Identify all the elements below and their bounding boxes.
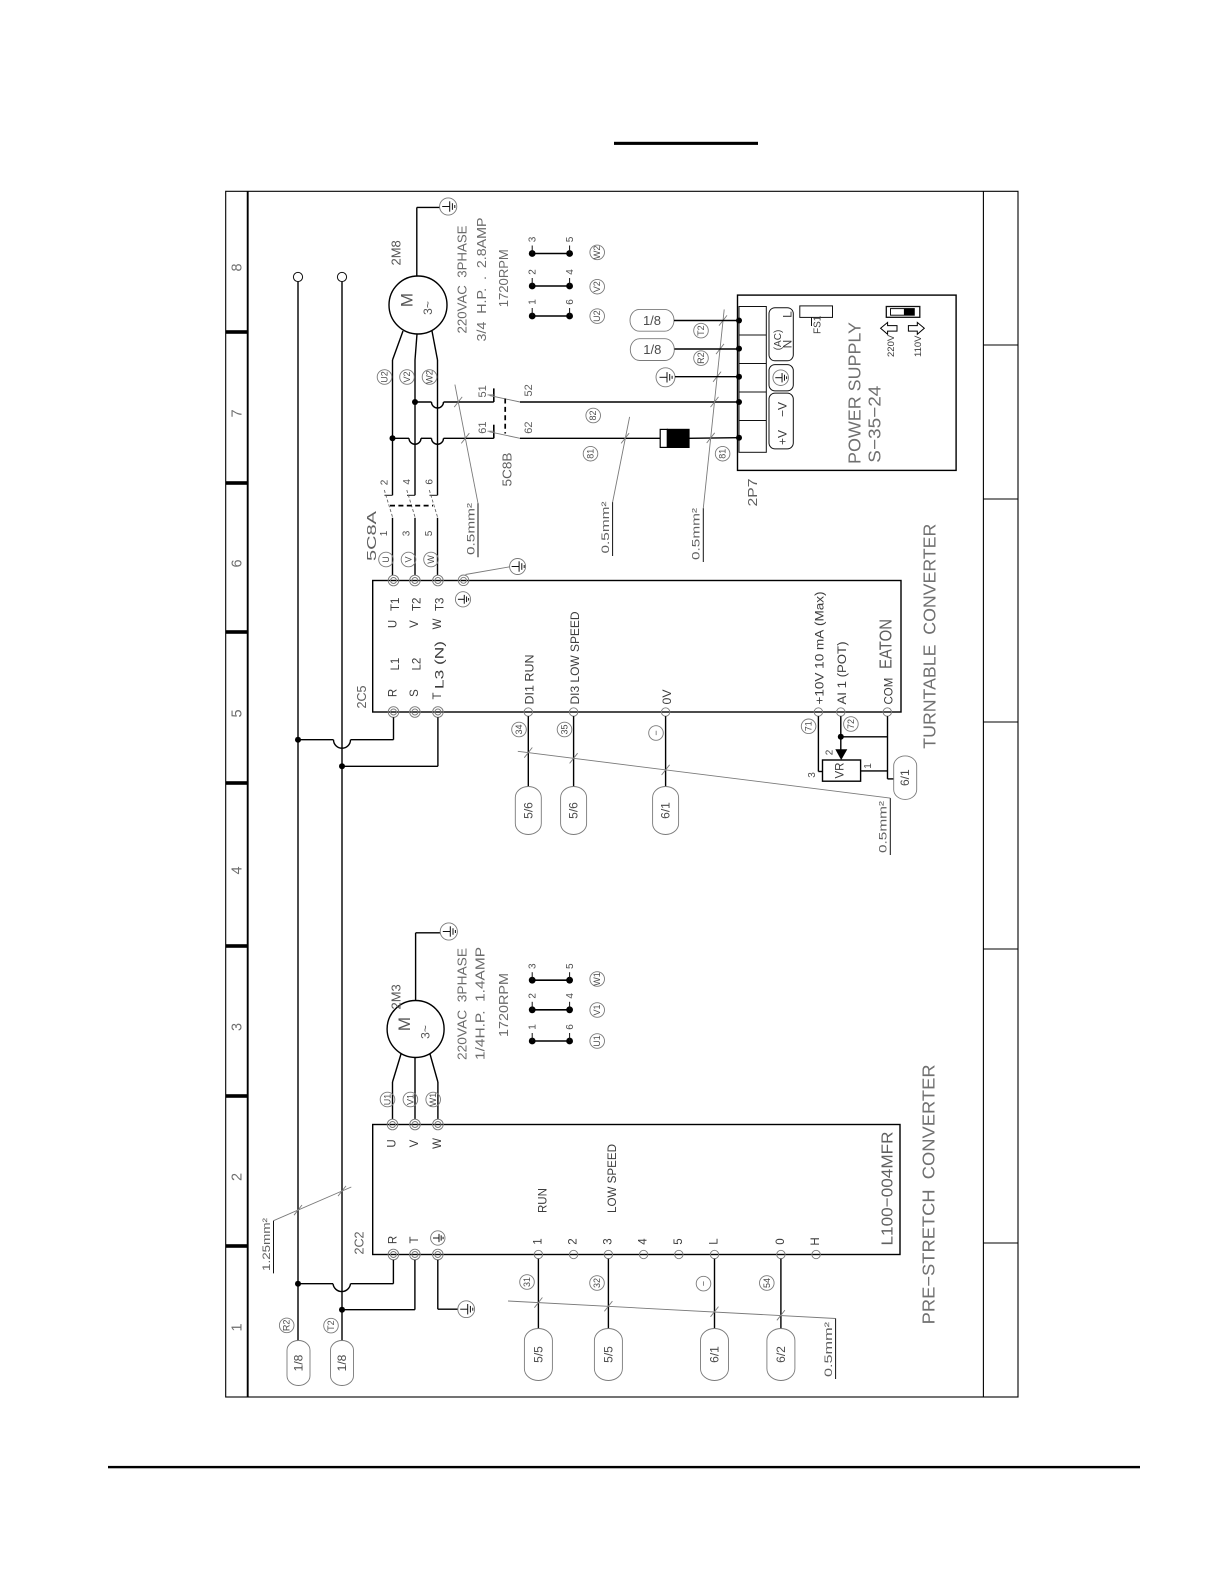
- svg-text:0V: 0V: [662, 689, 674, 704]
- svg-text:−: −: [651, 730, 661, 735]
- node U2 label: [377, 370, 392, 385]
- svg-text:W1: W1: [428, 1093, 438, 1107]
- node V1 label: [403, 1092, 418, 1107]
- wire V2 (motor 2M8 to 5C8A): [415, 334, 417, 495]
- svg-text:AI 1 (POT): AI 1 (POT): [837, 641, 849, 704]
- wiper arrow: [835, 749, 847, 760]
- terminal +V: [736, 435, 742, 441]
- svg-text:U: U: [387, 1139, 399, 1147]
- wire 52 (contact to power supply): [520, 401, 738, 403]
- svg-text:35: 35: [560, 724, 570, 734]
- svg-text:52: 52: [523, 384, 535, 396]
- label +V -V: [769, 393, 793, 449]
- svg-text:T: T: [432, 692, 444, 699]
- node U1 label (link): [590, 1034, 605, 1049]
- svg-text:1/8: 1/8: [643, 342, 661, 357]
- svg-text:T3: T3: [435, 598, 447, 611]
- wire size leader 0.5mm2 (2C2 control wires): [508, 1301, 836, 1379]
- svg-text:PRE−STRETCH CONVERTER: PRE−STRETCH CONVERTER: [919, 1064, 939, 1324]
- svg-text:TURNTABLE CONVERTER: TURNTABLE CONVERTER: [920, 524, 940, 749]
- destination 1/8 (R): [287, 1341, 310, 1386]
- svg-text:7: 7: [229, 409, 245, 417]
- node 31 label: [520, 1275, 535, 1290]
- svg-text:V1: V1: [592, 1004, 602, 1015]
- svg-text:5/6: 5/6: [521, 802, 535, 819]
- svg-text:V1: V1: [405, 1094, 415, 1105]
- svg-text:RUN: RUN: [538, 1188, 550, 1213]
- destination 5/6: [515, 787, 541, 835]
- node 81 label (right): [715, 446, 730, 461]
- node R2 label: [694, 351, 709, 366]
- node W2 label (link): [590, 245, 605, 260]
- junction on wire V2: [412, 399, 418, 405]
- node - label: [649, 726, 664, 741]
- wire DI1 to 5/6: [524, 716, 532, 786]
- node T2 label: [694, 323, 709, 338]
- svg-text:3: 3: [528, 963, 539, 969]
- converter 2C5 (EATON): [373, 581, 901, 713]
- svg-text:R2: R2: [282, 1320, 292, 1332]
- svg-text:62: 62: [523, 422, 535, 434]
- svg-text:0.5mm²: 0.5mm²: [878, 801, 890, 853]
- node V2 label (link): [590, 279, 605, 294]
- terminal -V: [736, 399, 742, 405]
- node W label: [424, 552, 439, 567]
- svg-text:1: 1: [528, 1024, 539, 1030]
- svg-text:51: 51: [477, 385, 489, 397]
- switch 5C8B contact 51-52 blade: [490, 396, 521, 403]
- node 72 label: [844, 717, 859, 732]
- ground (2C2): [438, 1260, 475, 1318]
- node W1 label (link): [590, 972, 605, 987]
- svg-text:L1: L1: [390, 658, 402, 671]
- terminal PE: [736, 374, 742, 380]
- svg-text:R: R: [388, 689, 400, 697]
- svg-text:POWER SUPPLY: POWER SUPPLY: [845, 322, 865, 464]
- wire 1 (RUN) to 5/5: [534, 1259, 542, 1329]
- svg-text:DI3 LOW SPEED: DI3 LOW SPEED: [570, 612, 582, 705]
- svg-text:2: 2: [568, 1238, 580, 1244]
- node 54 label: [760, 1276, 775, 1291]
- svg-text:2C5: 2C5: [354, 686, 369, 709]
- wire R (bus R2 to 2C2): [295, 1260, 393, 1292]
- terminal 0: [777, 1250, 785, 1258]
- terminal S: [410, 707, 421, 718]
- wire 3 (LOW SPEED) to 5/5: [604, 1259, 612, 1329]
- destination 5/5 (2): [594, 1329, 622, 1381]
- svg-text:W2: W2: [425, 370, 435, 384]
- svg-text:54: 54: [762, 1278, 772, 1288]
- svg-text:5: 5: [424, 530, 435, 536]
- wire 0 to 6/2: [777, 1259, 785, 1329]
- node V2 label: [400, 370, 415, 385]
- svg-text:U: U: [388, 620, 400, 628]
- svg-text:(AC): (AC): [773, 330, 784, 351]
- source 1/8 (T2 wire): [630, 309, 674, 331]
- svg-text:32: 32: [592, 1278, 602, 1288]
- svg-text:1: 1: [229, 1323, 245, 1331]
- terminal L: [736, 318, 742, 324]
- svg-text:3~: 3~: [419, 1025, 433, 1039]
- svg-text:5C8B: 5C8B: [501, 453, 515, 487]
- terminal PE: [433, 1249, 444, 1260]
- svg-text:5C8A: 5C8A: [364, 511, 379, 561]
- svg-text:W: W: [432, 618, 444, 629]
- wire 0V to 6/1: [662, 716, 670, 786]
- svg-text:1/8: 1/8: [292, 1354, 306, 1371]
- title underline: [614, 142, 758, 145]
- terminal COM: [883, 708, 891, 716]
- terminal T: [410, 1249, 421, 1260]
- svg-text:2: 2: [528, 993, 539, 999]
- svg-text:2: 2: [229, 1173, 245, 1181]
- motor 2M8: [389, 276, 447, 334]
- svg-text:3: 3: [602, 1238, 614, 1244]
- svg-text:V: V: [404, 556, 414, 562]
- wire AI1 to VR wiper: [838, 716, 844, 750]
- converter 2C2 (L100-004MFR): [373, 1125, 900, 1255]
- bus R2 (phase R vertical bus): [293, 272, 302, 1340]
- svg-text:8: 8: [229, 263, 245, 271]
- svg-text:6/1: 6/1: [659, 802, 673, 819]
- wire T (bus T2 to 2C2): [339, 1260, 415, 1313]
- ground (motor 2M8): [417, 198, 457, 276]
- wire COM to 6/1: [888, 716, 894, 779]
- svg-text:3: 3: [402, 530, 413, 536]
- wire AI1 junction to COM branch: [841, 736, 888, 738]
- terminal AI1: [837, 708, 845, 716]
- svg-text:W: W: [426, 555, 436, 564]
- svg-text:2M8: 2M8: [389, 240, 404, 265]
- svg-text:M: M: [395, 1017, 414, 1031]
- terminal N: [736, 346, 742, 352]
- svg-text:1: 1: [528, 299, 539, 305]
- wire 1/8 (bus R2 tail): [0, 0, 1, 1]
- terminal 2: [569, 1250, 577, 1258]
- svg-text:1/8: 1/8: [643, 313, 661, 328]
- terminal U: [387, 1119, 398, 1130]
- svg-text:W1: W1: [592, 972, 602, 986]
- terminal link diagram motor 2M8: [528, 236, 576, 319]
- svg-text:72: 72: [846, 719, 856, 729]
- node - label (L): [696, 1276, 711, 1291]
- node V1 label (link): [590, 1003, 605, 1018]
- contact 51 pivot dash: [488, 394, 494, 396]
- svg-text:2P7: 2P7: [745, 479, 760, 507]
- node W1 label: [426, 1092, 441, 1107]
- svg-text:T2: T2: [326, 1320, 336, 1331]
- terminal 3: [604, 1250, 612, 1258]
- svg-text:U1: U1: [592, 1035, 602, 1047]
- svg-text:5: 5: [229, 709, 245, 717]
- wire T2 to power supply: [674, 320, 738, 322]
- svg-text:0.5mm²: 0.5mm²: [823, 1322, 835, 1377]
- terminal 0V: [661, 708, 669, 716]
- svg-text:L: L: [709, 1238, 721, 1245]
- wire 62 (contact to diode): [520, 437, 660, 439]
- svg-text:220VAC 3PHASE: 220VAC 3PHASE: [455, 225, 470, 333]
- svg-text:1720RPM: 1720RPM: [496, 973, 511, 1037]
- svg-text:6: 6: [229, 559, 245, 567]
- node 71 label: [801, 719, 816, 734]
- potentiometer VR: [823, 760, 861, 781]
- svg-text:82: 82: [588, 410, 598, 420]
- svg-text:2C2: 2C2: [352, 1232, 367, 1255]
- wire 81 (diode to power supply): [689, 437, 738, 440]
- svg-text:V2: V2: [402, 371, 412, 382]
- node 32 label: [590, 1276, 605, 1291]
- svg-text:COM: COM: [884, 678, 896, 705]
- terminal DI1: [524, 708, 532, 716]
- svg-text:6: 6: [425, 479, 436, 485]
- svg-text:H: H: [810, 1237, 822, 1245]
- terminal W: [433, 1119, 444, 1130]
- svg-text:4: 4: [402, 479, 413, 485]
- arrow 110V: [908, 322, 924, 334]
- svg-text:110V: 110V: [913, 335, 924, 357]
- svg-text:2: 2: [528, 269, 539, 275]
- svg-text:T1: T1: [390, 598, 402, 611]
- svg-text:0.5mm²: 0.5mm²: [600, 501, 612, 553]
- node 82 label: [586, 408, 601, 423]
- wire W1 (motor 2M3 to 2C2): [430, 1054, 438, 1119]
- arrow 220V: [881, 322, 897, 334]
- destination 6/2: [767, 1329, 795, 1381]
- node 81 label: [583, 446, 598, 461]
- svg-text:R: R: [387, 1236, 399, 1244]
- svg-text:1: 1: [863, 763, 874, 769]
- terminal V: [410, 1119, 421, 1130]
- svg-text:U1: U1: [383, 1094, 393, 1106]
- svg-text:0.5mm²: 0.5mm²: [691, 508, 703, 560]
- svg-text:4: 4: [229, 866, 245, 874]
- svg-text:R2: R2: [696, 352, 706, 364]
- destination 6/1 (L): [701, 1329, 729, 1381]
- wire 61 branch (U2 junction to contact 61): [393, 425, 494, 445]
- destination 6/1: [653, 787, 679, 835]
- earth mark inside 2C5: [455, 592, 470, 607]
- svg-text:U2: U2: [380, 371, 390, 383]
- wire size leader 0.5mm2 (wire 62): [613, 417, 630, 556]
- node W2 label: [422, 370, 437, 385]
- svg-text:−: −: [699, 1281, 709, 1286]
- svg-text:4: 4: [565, 993, 576, 999]
- svg-text:L3 (N): L3 (N): [435, 641, 447, 689]
- bottom separator line: [108, 1466, 1140, 1468]
- wire R2 to power supply: [675, 348, 739, 350]
- svg-text:220VAC 3PHASE: 220VAC 3PHASE: [455, 948, 470, 1060]
- svg-text:1/8: 1/8: [335, 1354, 349, 1371]
- svg-text:−V: −V: [776, 402, 790, 417]
- terminal link diagram motor 2M3: [528, 963, 576, 1044]
- ground (motor 2M3): [416, 923, 458, 1001]
- earth mark 2C2: [431, 1231, 445, 1245]
- terminal T3: [433, 575, 444, 586]
- wire size leader 0.5mm2 (control wires): [518, 751, 891, 855]
- svg-text:V2: V2: [592, 281, 602, 292]
- svg-text:L100−004MFR: L100−004MFR: [879, 1132, 896, 1246]
- svg-text:34: 34: [514, 724, 524, 734]
- svg-text:5/5: 5/5: [601, 1346, 615, 1363]
- switch 5C8B contact 61-62 blade: [490, 432, 521, 439]
- svg-text:U: U: [381, 556, 391, 563]
- terminal T: [433, 707, 444, 718]
- terminal T1: [388, 575, 399, 586]
- svg-text:1720RPM: 1720RPM: [496, 249, 511, 307]
- svg-text:1: 1: [532, 1238, 544, 1244]
- power supply terminal block: [739, 307, 766, 453]
- label PE (ground): [769, 365, 793, 391]
- svg-text:81: 81: [718, 449, 728, 459]
- svg-text:6: 6: [565, 299, 576, 305]
- svg-text:2: 2: [380, 479, 391, 485]
- svg-text:6/2: 6/2: [774, 1346, 788, 1363]
- svg-text:3~: 3~: [421, 301, 435, 315]
- motor 2M3: [387, 1001, 444, 1058]
- label L / N(AC): [769, 308, 795, 361]
- terminal +10V: [814, 708, 822, 716]
- svg-text:0.5mm²: 0.5mm²: [466, 503, 478, 555]
- svg-text:1/4H.P. 1.4AMP: 1/4H.P. 1.4AMP: [473, 947, 488, 1060]
- wire U1 (motor 2M3 to 2C2): [393, 1054, 402, 1119]
- svg-text:T: T: [409, 1236, 421, 1243]
- terminal R: [388, 707, 399, 718]
- wire size leader 0.5mm2 (power supply wires): [703, 309, 727, 562]
- terminal L: [710, 1250, 718, 1258]
- svg-text:W: W: [432, 1138, 444, 1149]
- switch 5C8B mechanical link (dashed): [504, 399, 506, 434]
- contact 61 pivot dash: [488, 430, 494, 432]
- svg-text:3: 3: [807, 772, 818, 778]
- svg-text:0: 0: [775, 1238, 787, 1244]
- svg-text:T2: T2: [412, 598, 424, 611]
- terminal T2: [410, 575, 421, 586]
- wire DI3 to 5/6: [570, 716, 578, 786]
- svg-text:S−35−24: S−35−24: [865, 385, 885, 462]
- junction on wire U2: [390, 435, 396, 441]
- node 35 label: [557, 722, 572, 737]
- svg-text:2M3: 2M3: [389, 984, 404, 1009]
- svg-text:+10V 10 mA (Max): +10V 10 mA (Max): [815, 591, 827, 704]
- svg-text:220V: 220V: [886, 334, 897, 357]
- svg-text:3/4 H.P. . 2.8AMP: 3/4 H.P. . 2.8AMP: [474, 218, 489, 342]
- svg-text:3: 3: [229, 1023, 245, 1031]
- svg-text:+V: +V: [776, 430, 790, 445]
- svg-text:L: L: [781, 311, 795, 318]
- svg-text:5: 5: [565, 963, 576, 969]
- svg-text:EATON: EATON: [876, 619, 896, 669]
- svg-text:FS1: FS1: [813, 315, 824, 334]
- node U label: [379, 552, 394, 567]
- destination 5/5: [524, 1329, 552, 1381]
- node T2 label (bottom): [324, 1318, 339, 1333]
- svg-text:2: 2: [825, 749, 836, 755]
- wire R (bus R2 to 2C5): [295, 717, 394, 748]
- voltage selector switch: [886, 307, 920, 318]
- svg-text:6: 6: [565, 1024, 576, 1030]
- svg-text:VR: VR: [835, 763, 847, 779]
- wire 51 branch (V2 junction to contact 51): [415, 388, 494, 408]
- svg-text:31: 31: [522, 1277, 532, 1287]
- terminal 5: [675, 1250, 683, 1258]
- wire VR pin1: [861, 770, 888, 772]
- svg-text:W2: W2: [592, 246, 602, 260]
- wire V1 (motor 2M3 to 2C2): [414, 1058, 416, 1120]
- ground (power supply input): [656, 368, 738, 387]
- svg-text:6/1: 6/1: [708, 1346, 722, 1363]
- fuse FS1: [800, 306, 833, 326]
- node V label: [401, 552, 416, 567]
- node R2 label (bottom): [279, 1318, 294, 1333]
- svg-text:6/1: 6/1: [898, 769, 912, 786]
- svg-text:1: 1: [379, 530, 390, 536]
- svg-text:S: S: [409, 689, 421, 697]
- terminal 4: [639, 1250, 647, 1258]
- svg-text:5/5: 5/5: [531, 1346, 545, 1363]
- svg-text:71: 71: [804, 721, 814, 731]
- svg-text:V: V: [409, 1139, 421, 1147]
- svg-text:4: 4: [565, 269, 576, 275]
- terminal DI3: [569, 708, 577, 716]
- wire L to 6/1: [711, 1259, 719, 1329]
- wire T (bus T2 to 2C5): [339, 717, 438, 769]
- svg-text:5/6: 5/6: [567, 802, 581, 819]
- terminal R: [388, 1249, 399, 1260]
- source 1/8 (R2 wire): [630, 339, 674, 361]
- svg-text:1.25mm²: 1.25mm²: [261, 1218, 273, 1271]
- destination 5/6 (2): [561, 787, 587, 835]
- wire U2 (motor 2M8 to 5C8A): [393, 331, 404, 495]
- wire +10V to VR pin3: [818, 716, 822, 771]
- terminal 1: [534, 1250, 542, 1258]
- terminal H: [812, 1250, 820, 1258]
- destination 1/8 (T): [331, 1341, 354, 1386]
- svg-text:L2: L2: [412, 658, 424, 671]
- svg-text:61: 61: [477, 422, 489, 434]
- svg-text:3: 3: [528, 236, 539, 242]
- svg-text:DI1 RUN: DI1 RUN: [525, 655, 537, 705]
- svg-text:81: 81: [586, 449, 596, 459]
- bus T2 (phase T vertical bus): [337, 272, 346, 1340]
- svg-text:LOW SPEED: LOW SPEED: [607, 1144, 619, 1213]
- destination 6/1 (COM): [894, 756, 917, 800]
- switch 5C8A: [384, 490, 437, 575]
- svg-text:4: 4: [638, 1238, 650, 1245]
- wire size leader 1.25mm2 (bus feed): [274, 1186, 352, 1274]
- svg-text:T2: T2: [696, 325, 706, 336]
- power supply 2P7 (S-35-24): [738, 295, 957, 470]
- terminal PE (2C5 top): [458, 575, 469, 586]
- node U2 label (link): [590, 309, 605, 324]
- wire size leader 0.5mm2 (switch wires): [454, 385, 478, 558]
- ground (2C5): [466, 559, 526, 575]
- svg-text:U2: U2: [592, 310, 602, 322]
- wire W2 (motor 2M8 to 5C8A): [432, 331, 438, 495]
- svg-text:5: 5: [673, 1238, 685, 1244]
- svg-text:V: V: [409, 620, 421, 628]
- node U1 label: [380, 1092, 395, 1107]
- diode D1: [660, 429, 689, 447]
- svg-text:5: 5: [565, 236, 576, 242]
- node 34 label: [512, 722, 527, 737]
- svg-text:M: M: [398, 293, 417, 307]
